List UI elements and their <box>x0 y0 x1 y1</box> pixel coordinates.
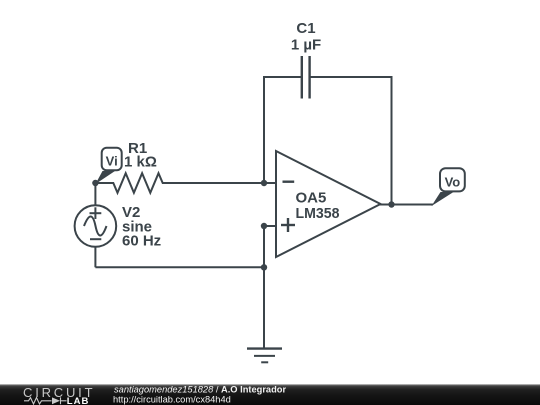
svg-text:60 Hz: 60 Hz <box>122 233 161 250</box>
svg-text:Vo: Vo <box>445 174 461 189</box>
svg-text:C1: C1 <box>296 20 315 37</box>
svg-text:1 kΩ: 1 kΩ <box>124 154 157 171</box>
svg-text:LAB: LAB <box>67 396 90 405</box>
svg-text:OA5: OA5 <box>296 189 327 206</box>
svg-text:LM358: LM358 <box>296 205 340 222</box>
svg-text:http://circuitlab.com/cx84h4d: http://circuitlab.com/cx84h4d <box>113 394 231 404</box>
svg-text:santiagomendez151828 / A.O Int: santiagomendez151828 / A.O Integrador <box>114 384 286 394</box>
svg-text:1 µF: 1 µF <box>291 37 321 54</box>
svg-text:Vi: Vi <box>106 153 118 168</box>
